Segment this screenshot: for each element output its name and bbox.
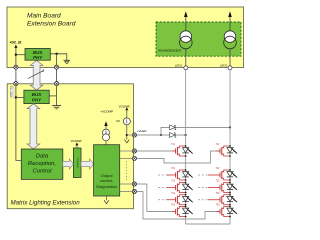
- svg-text:Extension Board: Extension Board: [27, 21, 76, 28]
- svg-text:Data: Data: [36, 153, 49, 159]
- BUS PHY U1 (main board): [25, 48, 50, 60]
- junction dot zener to left rail: [185, 134, 187, 136]
- svg-text:PHY: PHY: [32, 97, 42, 102]
- ground flag arrow (0V return): [124, 140, 129, 143]
- current source I1 (double circle): [103, 126, 110, 145]
- ground G2 (extension board): [52, 106, 61, 109]
- svg-text:Matrix Lighting Extension: Matrix Lighting Extension: [11, 200, 81, 207]
- ground G3 below output box: [104, 196, 109, 204]
- LED D51: [182, 206, 193, 218]
- node HDC_S2 (rotated label capsule on left edge): [9, 86, 14, 98]
- board-to-board connector pins (circles with X) row1: [14, 65, 18, 69]
- lamp E2 (incandescent bulb): [224, 31, 237, 49]
- wire lamp E2 to connector LED2: [229, 49, 231, 66]
- wire shield (x=56.6 down to lower board ground): [56, 54, 58, 106]
- svg-text:2: 2: [42, 69, 44, 73]
- svg-text:+DC_32: +DC_32: [10, 40, 22, 44]
- LED D12: [227, 145, 238, 157]
- transistor T41: [158, 192, 186, 205]
- transistor T52: [216, 204, 231, 217]
- svg-text:PHY: PHY: [33, 55, 43, 60]
- svg-text:T41: T41: [171, 192, 176, 195]
- LED string rail left: [185, 70, 187, 224]
- string return bus: [186, 223, 230, 225]
- svg-text:control,: control,: [100, 178, 113, 183]
- wire output gate row1 right (routed): [120, 151, 220, 163]
- svg-text:T31: T31: [171, 180, 176, 183]
- svg-text:T22: T22: [216, 167, 221, 170]
- wire supply arrow above lamp E2: [228, 11, 232, 31]
- LED D41: [182, 194, 193, 206]
- LED D21: [182, 169, 193, 181]
- svg-text:0V: 0V: [116, 119, 120, 123]
- svg-text:+VLED: +VLED: [137, 129, 147, 133]
- LED D52: [227, 206, 238, 218]
- connector LED1: [175, 64, 188, 70]
- junction dot zener to right rail: [229, 126, 231, 128]
- svg-text:T21: T21: [171, 167, 176, 170]
- svg-text:Diagnostics: Diagnostics: [96, 184, 117, 189]
- svg-text:VCOMP: VCOMP: [119, 104, 130, 108]
- wire bus-phy1 right to ground: [50, 54, 67, 61]
- junction dot rail/bus-phy2: [15, 96, 17, 98]
- wire output gate row1 left: [120, 150, 173, 152]
- transistor T21: [158, 167, 186, 180]
- zener diode Z1: [170, 125, 177, 130]
- transistor T31: [158, 180, 186, 193]
- svg-text:T51: T51: [171, 204, 176, 207]
- bus width slash and label 2: [28, 69, 44, 78]
- power flag arrow +VCOMP: [104, 121, 107, 126]
- matrix lighting extension board (lower yellow board): [7, 84, 133, 209]
- svg-text:T11: T11: [171, 143, 176, 146]
- wire VLED node to zener branch: [127, 134, 161, 136]
- svg-text:Interface: Interface: [75, 157, 79, 168]
- Data Reception Control box U3: [21, 149, 63, 179]
- svg-text:+VCOMP: +VCOMP: [100, 110, 113, 114]
- block arrow data box to interface box: [63, 159, 74, 169]
- wire output gate row5 right (routed): [120, 192, 220, 220]
- svg-text:T12: T12: [216, 143, 221, 146]
- current source I2 (0V): [116, 110, 130, 139]
- power flag arrow VCOMP (interface box): [75, 142, 78, 148]
- lamp E1 (incandescent bulb): [180, 31, 193, 49]
- svg-text:Output: Output: [101, 173, 114, 178]
- svg-text:T52: T52: [216, 204, 221, 207]
- bus arrow (BUS PHY U2 to data reception): [27, 104, 40, 149]
- junction dot VLED node: [126, 134, 128, 136]
- svg-text:T42: T42: [216, 192, 221, 195]
- LED D31: [182, 182, 193, 194]
- svg-text:LED2: LED2: [220, 64, 228, 68]
- power flag arrow VCOMP: [125, 107, 128, 110]
- LED string rail right: [229, 70, 231, 224]
- svg-text:T32: T32: [216, 180, 221, 183]
- board-to-board connector pins row2: [14, 82, 18, 86]
- transistor T22: [198, 167, 230, 180]
- connector LED2: [220, 64, 232, 70]
- bus arrow (between BUS PHYs): [30, 60, 43, 90]
- LED D42: [227, 194, 238, 206]
- transistor T32: [198, 180, 230, 193]
- svg-text:Control: Control: [33, 169, 53, 175]
- wire bus-phy2 right: [49, 95, 56, 97]
- wire bus-phy2 left: [16, 96, 24, 98]
- main/extension board (top yellow board): [7, 7, 244, 68]
- wire +DC_32 rail (x=15.9, down into lower board and to data box): [16, 48, 21, 160]
- Output control Diagnostics box U5: [94, 145, 120, 196]
- LED D22: [227, 169, 238, 181]
- svg-text:HDC_S2: HDC_S2: [9, 86, 13, 97]
- zener diode Z2 branch (to left string): [161, 134, 186, 136]
- svg-text:Main Board: Main Board: [27, 13, 61, 20]
- transistor T42: [198, 192, 230, 205]
- ground G1 (main board): [64, 60, 71, 64]
- block arrow interface box to output box: [81, 159, 94, 169]
- wire output gate row5 left (routed): [120, 184, 173, 212]
- transistor T12: [216, 143, 231, 156]
- LED D32: [227, 182, 238, 194]
- zener diode Z2: [170, 133, 177, 138]
- BUS PHY U2 (extension board): [24, 90, 49, 103]
- dotted continuation (more outputs): [126, 162, 128, 182]
- LED D11: [182, 145, 193, 157]
- power flag arrow +DC_32: [14, 45, 17, 48]
- wire bus-phy1 left: [16, 54, 25, 56]
- incandescent lamps dashed group box: [156, 22, 241, 56]
- transistor T51: [171, 204, 186, 217]
- wire lamp E1 to connector LED1: [185, 49, 187, 66]
- transistor T11: [171, 143, 186, 156]
- connector pins on extension board right edge: [132, 133, 136, 137]
- svg-text:VCOMP: VCOMP: [71, 139, 82, 143]
- svg-text:Reception,: Reception,: [28, 161, 56, 167]
- svg-text:INCANDESCENT: INCANDESCENT: [158, 49, 182, 53]
- junction dot rail/bus-phy1: [15, 54, 17, 56]
- junction dot zener branch tee: [160, 134, 162, 136]
- wire supply arrow above lamp E1: [184, 11, 188, 31]
- junction dot at shield wire: [55, 53, 57, 55]
- interface isolation box U4 (small vertical green box): [73, 148, 81, 178]
- zener diode Z1 branch (to right string): [161, 127, 230, 135]
- svg-text:LED1: LED1: [175, 64, 183, 68]
